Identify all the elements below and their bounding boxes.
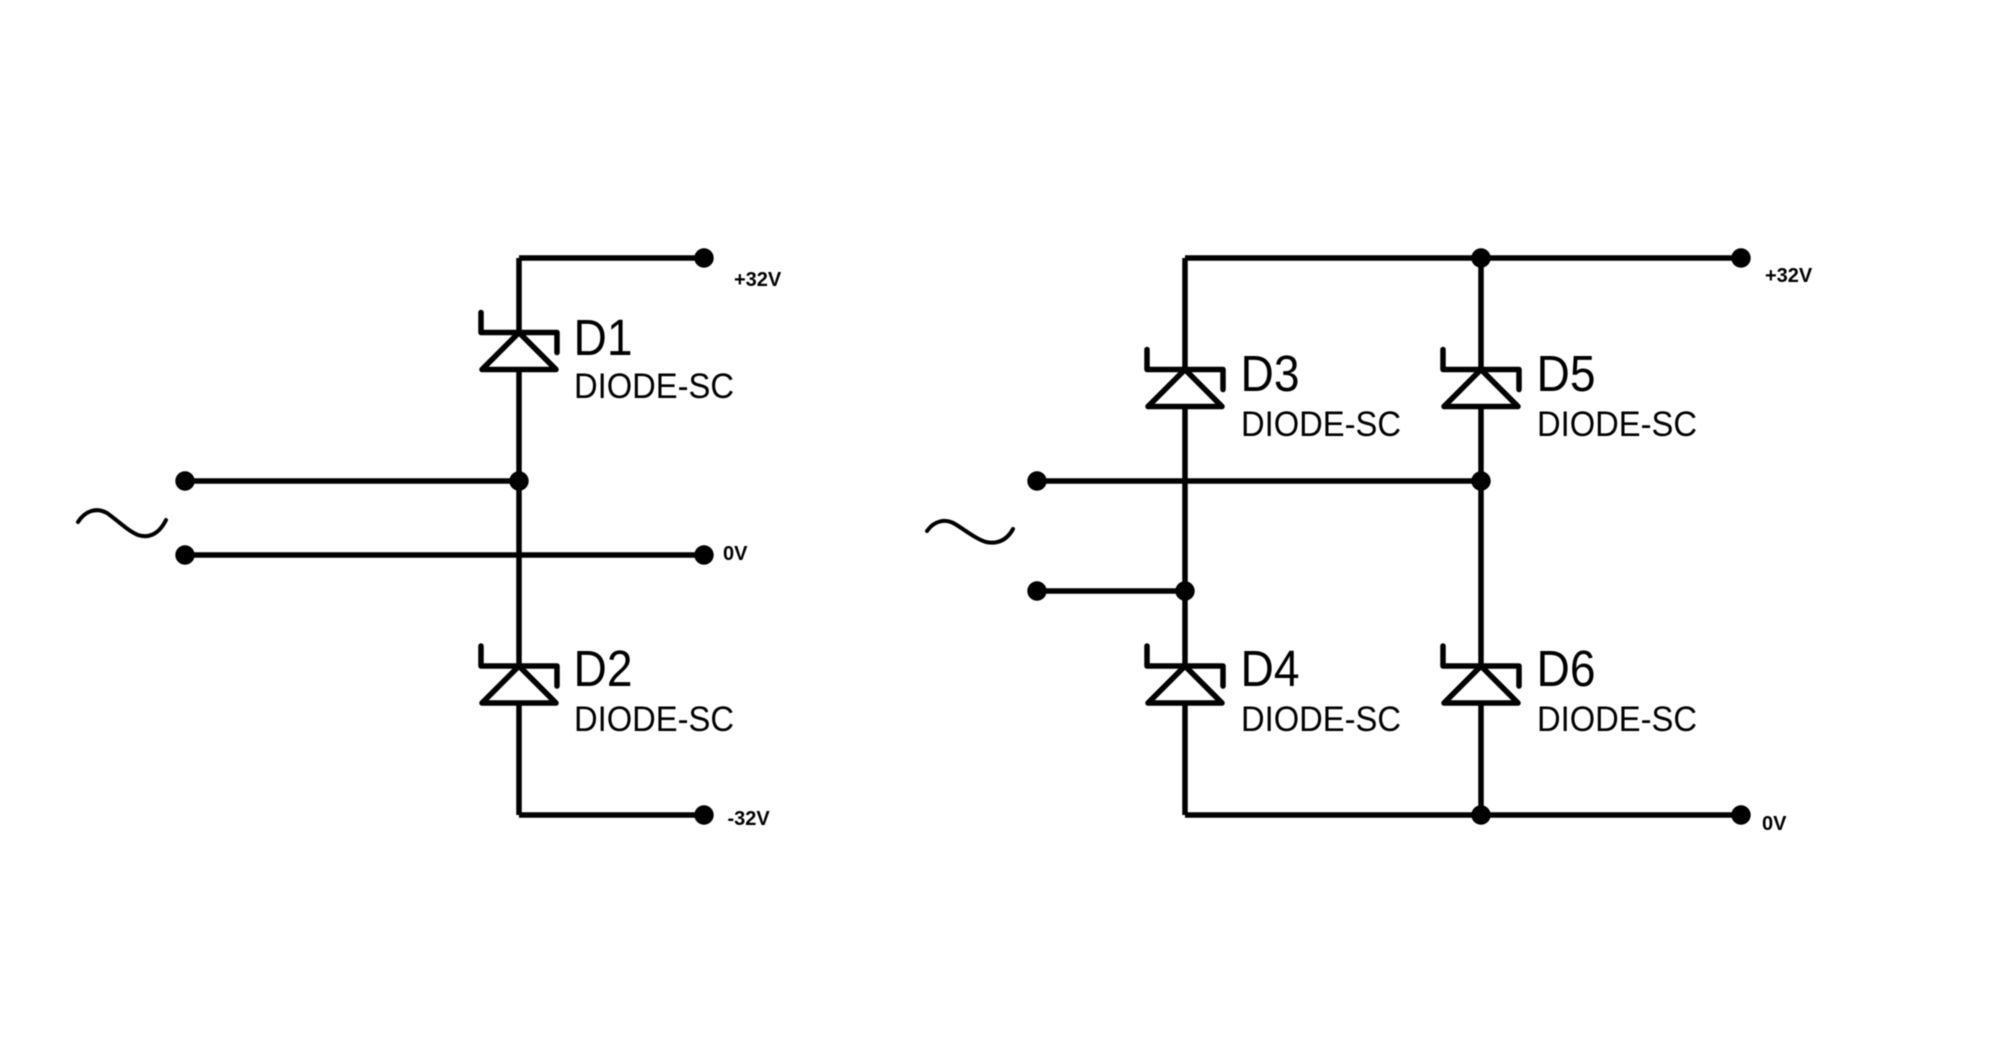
svg-text:D5: D5	[1537, 345, 1596, 402]
svg-text:0V: 0V	[723, 543, 748, 565]
svg-text:D6: D6	[1537, 640, 1596, 697]
wire: left circuit top output to +32V	[519, 255, 704, 261]
wire: left circuit center-tap input	[185, 478, 519, 484]
junction: top rail junction right circuit	[1471, 248, 1490, 267]
AC source squiggle left	[78, 510, 166, 536]
svg-text:DIODE-SC: DIODE-SC	[574, 367, 734, 406]
diode D2	[481, 646, 557, 703]
svg-text:DIODE-SC: DIODE-SC	[1537, 405, 1697, 444]
node: +32V terminal dot left circuit	[694, 248, 713, 267]
wire: right circuit right rail	[1478, 258, 1484, 815]
wire: left circuit bottom output to -32V	[519, 812, 704, 818]
wire: right circuit top output to +32V	[1185, 255, 1741, 261]
svg-text:D3: D3	[1241, 345, 1300, 402]
diode D5	[1443, 350, 1519, 407]
wire: right circuit bottom output to 0V	[1185, 812, 1741, 818]
svg-text:D1: D1	[574, 309, 633, 366]
junction: center-tap on left rail	[509, 471, 528, 490]
junction: lower AC input on left rail	[1175, 581, 1194, 600]
junction: bottom rail junction right circuit	[1471, 805, 1490, 824]
wire: right circuit upper AC input	[1037, 478, 1481, 484]
node: 0V input dot left circuit	[175, 545, 194, 564]
svg-text:DIODE-SC: DIODE-SC	[1241, 405, 1401, 444]
node: lower AC input dot right circuit	[1027, 581, 1046, 600]
node: 0V terminal dot left circuit	[694, 545, 713, 564]
svg-text:+32V: +32V	[734, 269, 782, 291]
node: -32V terminal dot left circuit	[694, 805, 713, 824]
node: center-tap input dot left circuit	[175, 471, 194, 490]
diode D1	[481, 313, 557, 370]
svg-text:D2: D2	[574, 640, 633, 697]
node: 0V terminal dot right circuit	[1731, 805, 1750, 824]
wire: left circuit vertical rail	[516, 258, 522, 815]
svg-text:+32V: +32V	[1765, 265, 1813, 287]
wire: right circuit lower AC input	[1037, 588, 1185, 594]
wire: right circuit left rail	[1182, 258, 1188, 815]
diode D6	[1443, 646, 1519, 703]
diode D3	[1147, 350, 1223, 407]
svg-text:DIODE-SC: DIODE-SC	[1537, 700, 1697, 739]
wire: left circuit 0V line	[185, 552, 704, 558]
junction: upper AC input on right rail	[1471, 471, 1490, 490]
node: +32V terminal dot right circuit	[1731, 248, 1750, 267]
svg-text:0V: 0V	[1762, 813, 1787, 835]
svg-text:DIODE-SC: DIODE-SC	[574, 700, 734, 739]
diode D4	[1147, 646, 1223, 703]
svg-text:-32V: -32V	[728, 808, 771, 830]
svg-text:DIODE-SC: DIODE-SC	[1241, 700, 1401, 739]
svg-text:D4: D4	[1241, 640, 1300, 697]
AC source squiggle right	[927, 521, 1013, 543]
node: upper AC input dot right circuit	[1027, 471, 1046, 490]
